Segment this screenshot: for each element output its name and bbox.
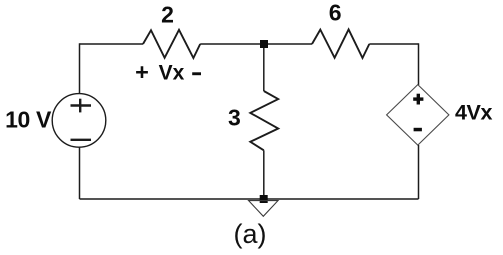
svg-text:6: 6 xyxy=(329,0,342,26)
svg-text:Vx: Vx xyxy=(159,62,185,85)
U1 minus sign xyxy=(414,128,422,132)
wire: right vertical upper (corner to dependent source) xyxy=(418,43,420,85)
svg-text:4Vx: 4Vx xyxy=(455,100,492,124)
wire: left vertical upper (top wire to source V1) xyxy=(79,43,81,94)
svg-text:10 V: 10 V xyxy=(5,107,52,133)
resistor R3 value 3 (middle vertical zigzag) xyxy=(250,91,278,150)
label + Vx - (polarity across R1) xyxy=(135,59,201,85)
voltage source V1 circle xyxy=(52,94,106,148)
node B junction square (bottom) xyxy=(260,195,268,203)
wire: top-right horizontal (R2 to right corner) xyxy=(369,43,418,45)
wire: bottom horizontal xyxy=(80,198,419,200)
wire: left vertical lower (source V1 to bottom wire) xyxy=(79,147,81,199)
svg-text:(a): (a) xyxy=(234,219,267,249)
svg-text:2: 2 xyxy=(161,2,174,28)
dependent voltage source U1 diamond xyxy=(387,85,449,146)
V1 minus sign xyxy=(71,139,92,141)
resistor R1 value 2 (top left zigzag) xyxy=(143,30,200,58)
U1 plus sign xyxy=(413,94,423,105)
ground symbol xyxy=(249,201,278,217)
svg-text:+: + xyxy=(135,59,149,85)
wire: middle vertical lower (R3 to node B) xyxy=(263,150,265,199)
wire: top-middle horizontal (R1 to node A to R2) xyxy=(200,43,312,45)
wire: top-left horizontal (source to R1) xyxy=(80,43,144,45)
node A junction square (top) xyxy=(260,40,268,48)
resistor R2 value 6 (top right zigzag) xyxy=(312,29,369,58)
wire: middle vertical upper (node A to R3) xyxy=(263,44,265,91)
svg-text:3: 3 xyxy=(228,105,241,131)
V1 plus sign xyxy=(71,99,92,113)
wire: right vertical lower (source to bottom wire) xyxy=(418,145,420,199)
